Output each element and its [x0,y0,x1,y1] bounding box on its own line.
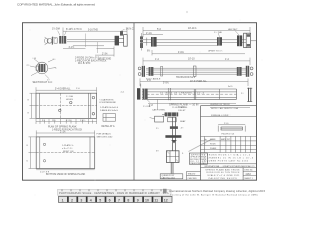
svg-text:2: 2 [204,143,205,145]
drawing number box [242,168,244,181]
archive caption [163,189,167,193]
svg-text:TRUSS ROD No 2: TRUSS ROD No 2 [176,77,196,79]
svg-text:2¼: 2¼ [27,64,30,67]
svg-text:5-16 THD: 5-16 THD [88,30,98,32]
svg-text:2: 2 [71,198,73,202]
left bracket [155,116,164,122]
svg-text:1-PLATE 8x⅜x5'-4: 1-PLATE 8x⅜x5'-4 [100,106,119,109]
svg-text:CHECKED: CHECKED [188,178,198,180]
svg-text:3¼: 3¼ [156,149,159,152]
svg-text:10: 10 [145,198,149,202]
svg-text:DETAIL AT A: DETAIL AT A [102,125,116,128]
plank dimensions [140,78,250,110]
truss rod no.1 elevation [143,40,246,46]
svg-text:FILLET: FILLET [178,110,186,112]
svg-text:NOTE:— ALL RIVETS ¾ DIA: NOTE:— ALL RIVETS ¾ DIA [211,107,239,110]
svg-text:1'-0¾: 1'-0¾ [80,119,86,122]
svg-text:HEX NUT: HEX NUT [228,29,238,31]
svg-text:¾ DIA RIVETS: ¾ DIA RIVETS [99,98,114,101]
top cap [165,112,179,116]
spring plank bottom view [36,137,94,169]
svg-text:SHEET 1: SHEET 1 [244,178,253,180]
svg-text:SEE DWG 4162: SEE DWG 4162 [97,136,114,138]
svg-text:7: 7 [118,198,120,202]
ruler number row [59,196,173,202]
plank rivet ticks [169,88,220,100]
svg-text:PALESTINE SHOPS: PALESTINE SHOPS [209,177,238,180]
base block [166,151,179,163]
rod2 dimensions [143,58,250,65]
svg-text:1¾ DIA: 1¾ DIA [143,105,151,108]
approval stamp [189,153,207,165]
svg-text:10 IN 15 LB CHANNEL x 10'-6: 10 IN 15 LB CHANNEL x 10'-6 [160,92,205,95]
plank end section [241,88,252,102]
svg-text:2'-3¾: 2'-3¾ [102,52,108,55]
rod1 left anchor [140,33,157,51]
materials table [201,136,257,152]
svg-text:8'-10½ C TO C: 8'-10½ C TO C [66,27,82,31]
svg-text:FOR DETAILS: FOR DETAILS [97,133,112,136]
queen post detail (vertical) [150,112,182,173]
top view dimensions [30,87,97,124]
svg-text:1 CHANNEL 10 IN 15 LB x 10'-6: 1 CHANNEL 10 IN 15 LB x 10'-6 [204,156,254,159]
svg-text:International-Great Northern R: International-Great Northern Railroad Co… [169,190,266,193]
spring plank elevation [142,89,237,99]
bottom view dimensions [29,130,95,169]
svg-text:FINISH ALL OVER: FINISH ALL OVER [211,114,229,117]
svg-text:2-ANGLES 3x3x⅜: 2-ANGLES 3x3x⅜ [100,109,118,112]
plank left end [137,84,150,103]
sheet border frame [23,23,257,181]
svg-text:CAST No 4162: CAST No 4162 [161,177,175,180]
svg-text:MATL: MATL [221,138,226,141]
svg-text:COUNTERSUNK: COUNTERSUNK [99,102,116,104]
collar [170,126,178,129]
rod2 left end plate [138,66,153,77]
svg-text:5: 5 [99,198,101,202]
svg-text:1-REQ'D FOR EACH TRUCK: 1-REQ'D FOR EACH TRUCK [52,129,83,132]
svg-text:DWG No: DWG No [244,170,253,172]
svg-text:x 8 x 2'-1¾: x 8 x 2'-1¾ [62,147,73,150]
rod2 mid splice [193,66,196,76]
base stem [170,162,172,173]
svg-text:8: 8 [127,198,129,202]
svg-text:1¾: 1¾ [53,58,56,61]
svg-text:UPSET TO 1¾: UPSET TO 1¾ [208,50,223,53]
svg-text:11: 11 [154,198,158,202]
scan specks [15,11,263,196]
svg-text:5'-4 OVER ALL: 5'-4 OVER ALL [55,87,71,90]
section label [165,135,181,138]
svg-text:3: 3 [80,198,82,202]
truss rod left clevis [45,36,67,45]
svg-text:1½ DIA: 1½ DIA [52,27,60,31]
svg-text:4 QUEEN POSTS CAST No 4162: 4 QUEEN POSTS CAST No 4162 [204,159,249,162]
svg-text:10'-10: 10'-10 [188,57,195,60]
svg-text:4'-6⅛: 4'-6⅛ [178,52,184,54]
turnbuckle detail (left) [30,59,55,79]
title block lower-left rows [187,170,201,172]
photo scale ruler [58,189,172,195]
svg-text:9: 9 [137,198,139,202]
svg-text:PHOTOGRAPHIC SCALE · CENTIMETR: PHOTOGRAPHIC SCALE · CENTIMETRES · JOHN … [59,191,170,195]
svg-text:1-REQ'D FOR EACH TRUCK: 1-REQ'D FOR EACH TRUCK [75,59,107,62]
title block [201,106,257,181]
svg-text:HOLES: HOLES [66,99,73,101]
svg-text:10'-11⅝: 10'-11⅝ [188,27,196,30]
sheet tint [23,23,257,181]
clevis leader lines [58,29,125,35]
svg-text:SEAT: SEAT [180,120,186,123]
truss rod plan (top left) [67,39,115,45]
svg-text:4: 4 [90,198,92,202]
spring plank top view [36,93,97,118]
queen post caption box [160,174,183,179]
svg-text:TRACED: TRACED [188,173,196,176]
svg-text:SPRING PLANK AND TRUSS: SPRING PLANK AND TRUSS [205,168,240,171]
svg-text:1-PLATE ⅜: 1-PLATE ⅜ [62,144,73,147]
svg-text:SCALE 3"=1'-0 JUNE 1921: SCALE 3"=1'-0 JUNE 1921 [207,174,240,177]
svg-text:BOTTOM VIEW OF SPRING PLANK: BOTTOM VIEW OF SPRING PLANK [46,173,86,176]
svg-text:CENTER OF TRUCK: CENTER OF TRUCK [210,104,230,106]
svg-text:CAST STEEL: CAST STEEL [152,109,166,112]
truss rod no.2 elevation [146,68,246,74]
arrows [171,140,177,143]
rod1 dimensions [143,27,250,55]
svg-text:12: 12 [164,198,168,202]
svg-text:M.C.B. STD: M.C.B. STD [78,63,91,65]
svg-text:RIVET ON: RIVET ON [63,151,74,153]
svg-text:PLAN OF SPRING PLANK: PLAN OF SPRING PLANK [48,126,77,129]
svg-text:2-⅞: 2-⅞ [121,91,125,94]
rivet detail [103,114,115,122]
svg-text:RODS FOR 40 TON TRUCK: RODS FOR 40 TON TRUCK [206,172,240,174]
svg-text:10'-6 OVER ALL: 10'-6 OVER ALL [190,80,208,83]
svg-text:⅜: ⅜ [55,68,57,70]
svg-text:RODS: RODS [210,143,216,145]
truss rod right end nut [115,31,128,46]
svg-text:2'-1⅛: 2'-1⅛ [146,33,152,35]
svg-text:No: No [204,139,206,141]
svg-text:Courtesy of the John W. Barrig: Courtesy of the John W. Barriger III Nat… [170,194,259,197]
svg-text:2'-1¾: 2'-1¾ [60,130,66,133]
svg-text:1: 1 [62,198,64,202]
filler bar sketch [218,125,245,132]
svg-text:COPYRIGHTED MATERIAL, John Edw: COPYRIGHTED MATERIAL, John Edwards, all … [17,3,95,7]
svg-text:NAME: NAME [210,138,216,141]
svg-text:1: 1 [204,148,205,150]
svg-text:FILLER 1¼x3: FILLER 1¼x3 [222,132,236,135]
truss rod dimension lines [63,28,127,57]
svg-text:PLANK: PLANK [210,147,217,150]
rod2 right end plate [237,66,253,77]
rod1 right anchor [217,31,257,48]
sheet divider [133,23,135,181]
pencil mark [189,140,212,152]
post shaft [172,117,174,151]
svg-text:5'-0: 5'-0 [157,28,162,31]
svg-text:4163: 4163 [245,173,251,176]
svg-text:6: 6 [109,198,111,202]
svg-text:SECTION AT C-C: SECTION AT C-C [33,81,53,84]
